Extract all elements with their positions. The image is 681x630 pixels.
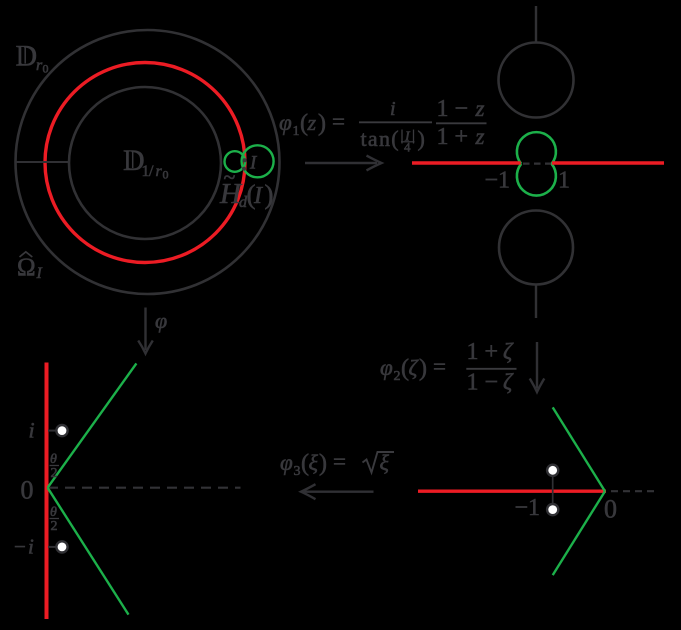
tick to dot i — [48, 430, 57, 432]
svg-text:1: 1 — [558, 168, 570, 194]
svg-text:I: I — [36, 265, 43, 282]
svg-text:1: 1 — [293, 124, 300, 139]
svg-text:): ) — [319, 451, 327, 477]
svg-text:z: z — [475, 124, 485, 149]
svg-text:2: 2 — [51, 519, 58, 534]
green upper ray — [48, 363, 137, 487]
svg-text:tan(: tan( — [361, 126, 400, 151]
svg-text:=: = — [333, 449, 346, 474]
svg-text:θ: θ — [50, 452, 57, 467]
upper circle — [499, 43, 574, 118]
green lower ray — [553, 491, 605, 575]
svg-text:z: z — [307, 110, 317, 135]
phi2 down arrow — [530, 342, 545, 392]
bottom vertical line — [535, 285, 537, 319]
svg-text:1 +: 1 + — [467, 339, 499, 365]
svg-text:1 −: 1 − — [437, 96, 469, 122]
outer circle D_r0 — [16, 30, 280, 294]
red vertical line — [45, 363, 49, 620]
svg-text:2: 2 — [394, 369, 401, 384]
formula phi3 — [280, 449, 394, 479]
vertical connector between dots — [552, 470, 554, 509]
phi down arrow — [138, 308, 153, 354]
svg-text:ξ: ξ — [309, 450, 319, 475]
svg-text:0: 0 — [163, 168, 169, 182]
dashed segment -1..1 — [523, 163, 551, 165]
svg-text:i: i — [390, 98, 396, 120]
green lower ray — [48, 488, 129, 615]
label Omega-hat_I — [17, 252, 43, 282]
red line left part — [412, 161, 521, 164]
svg-text:Ω: Ω — [17, 254, 36, 281]
lower circle — [499, 211, 573, 285]
green level curve right lobe — [242, 145, 274, 177]
svg-text:φ: φ — [279, 110, 292, 135]
svg-text:θ: θ — [50, 505, 57, 520]
svg-text:z: z — [475, 96, 485, 121]
red unit circle — [45, 63, 245, 263]
inner circle D_1/r0 — [69, 87, 221, 239]
dashed horizontal axis — [48, 487, 241, 489]
svg-text:ξ: ξ — [380, 450, 390, 475]
svg-text:−1: −1 — [515, 495, 541, 521]
svg-text:0: 0 — [21, 476, 34, 505]
label D_r0 — [16, 40, 49, 76]
white dot lower — [547, 504, 558, 515]
white dot at i — [56, 425, 67, 436]
svg-text:): ) — [418, 126, 425, 151]
svg-text:0: 0 — [604, 495, 617, 524]
sqrt xi — [363, 452, 395, 473]
svg-text:I: I — [253, 183, 263, 209]
phi3 left arrow — [301, 484, 374, 499]
svg-text:−: − — [14, 535, 26, 559]
svg-text:0: 0 — [43, 62, 49, 76]
svg-text:4: 4 — [404, 140, 411, 155]
interval I end marks — [243, 158, 247, 162]
svg-text:=: = — [433, 354, 446, 379]
formula phi1 — [279, 96, 487, 155]
red half-line — [418, 490, 606, 493]
white dot at -i — [56, 541, 67, 552]
svg-text:3: 3 — [294, 464, 301, 479]
theta/2 lower — [50, 505, 60, 534]
radial slit — [16, 161, 70, 163]
dashed axis right of 0 — [611, 490, 658, 492]
svg-text:φ: φ — [380, 355, 393, 380]
right arrow — [305, 156, 382, 171]
svg-text:): ) — [419, 356, 427, 382]
svg-text:): ) — [265, 180, 274, 210]
theta/2 upper — [50, 452, 60, 481]
svg-text:−1: −1 — [485, 168, 511, 194]
svg-text:1 −: 1 − — [467, 370, 499, 396]
svg-text:i: i — [29, 418, 35, 443]
tick to dot -i — [48, 546, 57, 548]
svg-text:D: D — [16, 40, 38, 73]
svg-text:i: i — [28, 535, 34, 559]
green peanut — [517, 132, 556, 195]
svg-text:=: = — [332, 109, 345, 134]
svg-text:): ) — [318, 111, 326, 137]
svg-text:/: / — [149, 163, 154, 180]
red line right part — [552, 161, 664, 164]
svg-text:2: 2 — [51, 466, 58, 481]
svg-text:1 +: 1 + — [437, 124, 469, 150]
label D_1/r0 — [123, 144, 169, 182]
svg-text:φ: φ — [280, 450, 293, 475]
white dot upper — [547, 465, 558, 476]
svg-text:r: r — [156, 163, 163, 180]
green level curve left lobe — [225, 151, 246, 172]
label H~_d(I) — [219, 165, 274, 212]
svg-text:φ: φ — [155, 308, 167, 333]
green upper ray — [553, 407, 605, 491]
formula phi2 — [380, 339, 517, 396]
top vertical line — [535, 6, 537, 43]
